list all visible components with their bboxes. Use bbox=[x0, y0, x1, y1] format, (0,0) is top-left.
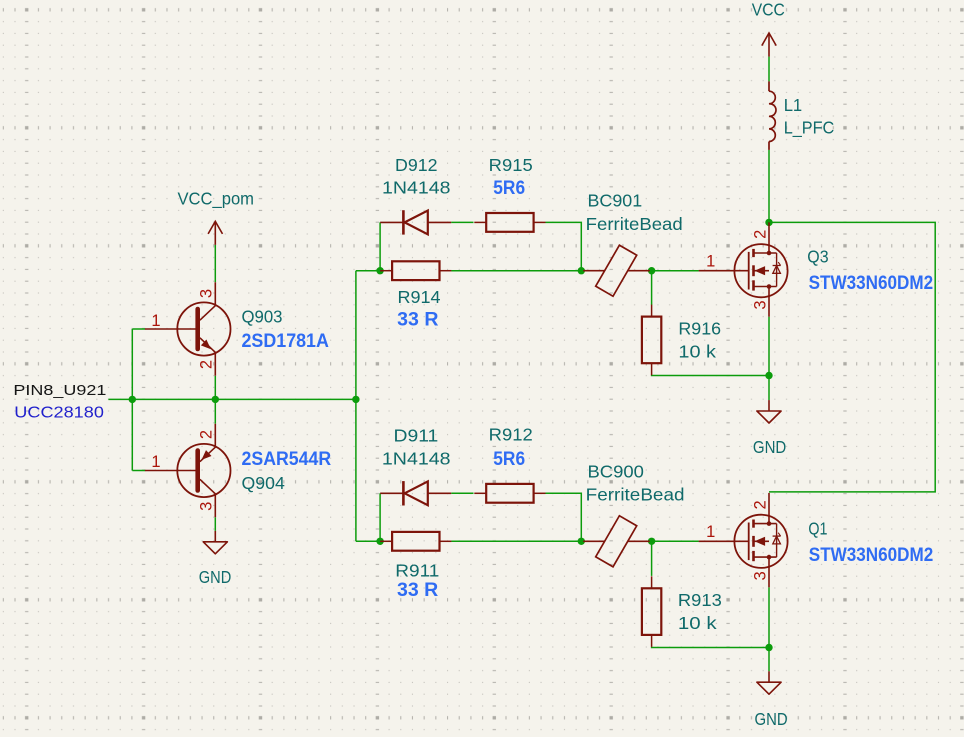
junction K Q3 source bbox=[765, 372, 772, 379]
svg-text:UCC28180: UCC28180 bbox=[14, 405, 104, 422]
svg-text:Q1: Q1 bbox=[808, 519, 827, 539]
svg-text:Q903: Q903 bbox=[242, 306, 283, 326]
svg-text:3: 3 bbox=[198, 502, 216, 511]
svg-text:L_PFC: L_PFC bbox=[784, 117, 835, 138]
svg-text:1N4148: 1N4148 bbox=[382, 177, 451, 197]
svg-text:Q3: Q3 bbox=[807, 246, 828, 266]
svg-text:GND: GND bbox=[755, 709, 788, 729]
wire base bus vertical bbox=[131, 329, 133, 471]
diode D912 bbox=[380, 210, 451, 234]
svg-text:BC901: BC901 bbox=[588, 191, 643, 211]
svg-text:2SAR544R: 2SAR544R bbox=[242, 449, 332, 470]
wire drain bus bbox=[769, 222, 935, 492]
junction H bbox=[578, 538, 585, 545]
junction L Q1 source bbox=[765, 644, 772, 651]
svg-text:R916: R916 bbox=[678, 318, 721, 338]
svg-text:PIN8_U921: PIN8_U921 bbox=[13, 382, 106, 399]
svg-text:1: 1 bbox=[151, 312, 160, 330]
wire bead BC900 to gate bbox=[652, 540, 699, 542]
junction G bbox=[376, 538, 383, 545]
svg-text:1N4148: 1N4148 bbox=[382, 448, 451, 468]
transistor Q904 bbox=[145, 424, 231, 518]
resistor R913 bbox=[642, 576, 661, 647]
wire bead node to R916 bbox=[651, 271, 653, 305]
svg-text:R911: R911 bbox=[395, 560, 439, 580]
svg-text:Q904: Q904 bbox=[242, 473, 286, 493]
transistor Q3 bbox=[699, 222, 788, 316]
wire R912 to corner bbox=[546, 493, 582, 541]
junction J drain bbox=[765, 219, 772, 226]
svg-text:D911: D911 bbox=[394, 425, 439, 445]
svg-text:R913: R913 bbox=[678, 590, 722, 610]
wire R915 to corner bbox=[546, 222, 582, 270]
svg-text:VCC_pom: VCC_pom bbox=[178, 189, 255, 210]
svg-text:R914: R914 bbox=[398, 287, 441, 307]
resistor R916 bbox=[642, 305, 661, 376]
svg-text:FerriteBead: FerriteBead bbox=[586, 484, 685, 504]
wire R911 to bead node bbox=[451, 540, 581, 542]
svg-text:10 k: 10 k bbox=[678, 613, 717, 633]
svg-text:1: 1 bbox=[706, 523, 715, 541]
junction C bbox=[352, 396, 359, 403]
wire emitter junction vertical bbox=[214, 376, 216, 424]
wire R916 to source node bbox=[652, 374, 769, 377]
diode D911 bbox=[380, 481, 451, 505]
resistor R912 bbox=[474, 484, 545, 503]
svg-text:33 R: 33 R bbox=[397, 580, 439, 601]
power symbol GND under Q1 bbox=[757, 671, 781, 694]
junction F bbox=[648, 267, 655, 274]
wire bead node to R913 bbox=[651, 541, 653, 576]
power symbol GND under Q904 bbox=[203, 531, 227, 554]
junction B bbox=[212, 396, 219, 403]
wire VCC_pom to Q903 collector bbox=[214, 245, 216, 282]
svg-text:3: 3 bbox=[751, 571, 769, 580]
svg-text:33 R: 33 R bbox=[397, 310, 439, 331]
svg-text:L1: L1 bbox=[784, 95, 803, 115]
junction I bbox=[648, 538, 655, 545]
svg-text:3: 3 bbox=[751, 300, 769, 309]
wire Q1 source junction to GND bbox=[768, 648, 770, 672]
wire input net PIN8_U921 bbox=[108, 398, 356, 400]
wire D911 to R912 bbox=[451, 492, 473, 494]
svg-text:R915: R915 bbox=[489, 155, 533, 175]
svg-text:5R6: 5R6 bbox=[493, 178, 525, 199]
wire bead BC901 to gate bbox=[652, 270, 699, 272]
power symbol GND under Q3 bbox=[757, 400, 781, 423]
resistor R914 bbox=[380, 261, 451, 280]
svg-text:3: 3 bbox=[198, 289, 216, 298]
resistor R911 bbox=[380, 532, 451, 551]
wire L1 to drain junction bbox=[768, 150, 770, 223]
wire Q904 collector to GND bbox=[214, 517, 216, 531]
inductor L1 bbox=[769, 81, 776, 149]
svg-text:2: 2 bbox=[198, 430, 216, 439]
svg-text:STW33N60DM2: STW33N60DM2 bbox=[809, 273, 934, 294]
svg-text:R912: R912 bbox=[489, 425, 533, 445]
svg-text:5R6: 5R6 bbox=[493, 449, 525, 470]
power symbol VCC_pom bbox=[208, 221, 222, 245]
ferrite bead BC900 bbox=[583, 516, 650, 567]
wire VCC to L1 bbox=[768, 57, 770, 82]
svg-text:2SD1781A: 2SD1781A bbox=[242, 331, 330, 352]
wire trunk to top junction bbox=[356, 270, 380, 272]
svg-text:2: 2 bbox=[751, 500, 769, 509]
svg-text:D912: D912 bbox=[395, 155, 438, 175]
junction A bbox=[129, 396, 136, 403]
wire Q3 source to junction bbox=[768, 317, 770, 376]
svg-text:2: 2 bbox=[751, 230, 769, 239]
wire R914 to bead node bbox=[451, 270, 581, 272]
wire D911 branch vertical bbox=[379, 493, 381, 541]
wire Q904 base bbox=[132, 470, 145, 472]
wire R913 to source node bbox=[652, 646, 769, 649]
wire D912 to R915 bbox=[451, 221, 473, 223]
power symbol VCC bbox=[762, 33, 776, 57]
junction D bbox=[376, 267, 383, 274]
wire trunk vertical bbox=[355, 271, 357, 542]
wire Q3 source junction to GND bbox=[768, 376, 770, 401]
svg-text:VCC: VCC bbox=[752, 0, 785, 19]
ferrite bead BC901 bbox=[583, 245, 650, 296]
transistor Q1 bbox=[699, 493, 788, 587]
svg-text:BC900: BC900 bbox=[588, 461, 645, 481]
resistor R915 bbox=[474, 213, 545, 232]
svg-text:GND: GND bbox=[753, 437, 786, 457]
wire trunk to bottom junction bbox=[356, 540, 380, 542]
svg-text:STW33N60DM2: STW33N60DM2 bbox=[809, 545, 934, 566]
svg-text:1: 1 bbox=[706, 252, 715, 270]
junction E bbox=[578, 267, 585, 274]
svg-text:FerriteBead: FerriteBead bbox=[586, 214, 683, 234]
svg-text:1: 1 bbox=[151, 453, 160, 471]
svg-text:10 k: 10 k bbox=[678, 341, 716, 361]
wire Q1 source to junction bbox=[768, 587, 770, 647]
svg-text:2: 2 bbox=[198, 360, 216, 369]
transistor Q903 bbox=[145, 282, 231, 376]
wire Q903 base bbox=[132, 328, 145, 330]
wire D912 branch vertical bbox=[379, 222, 381, 270]
svg-text:GND: GND bbox=[199, 567, 232, 587]
